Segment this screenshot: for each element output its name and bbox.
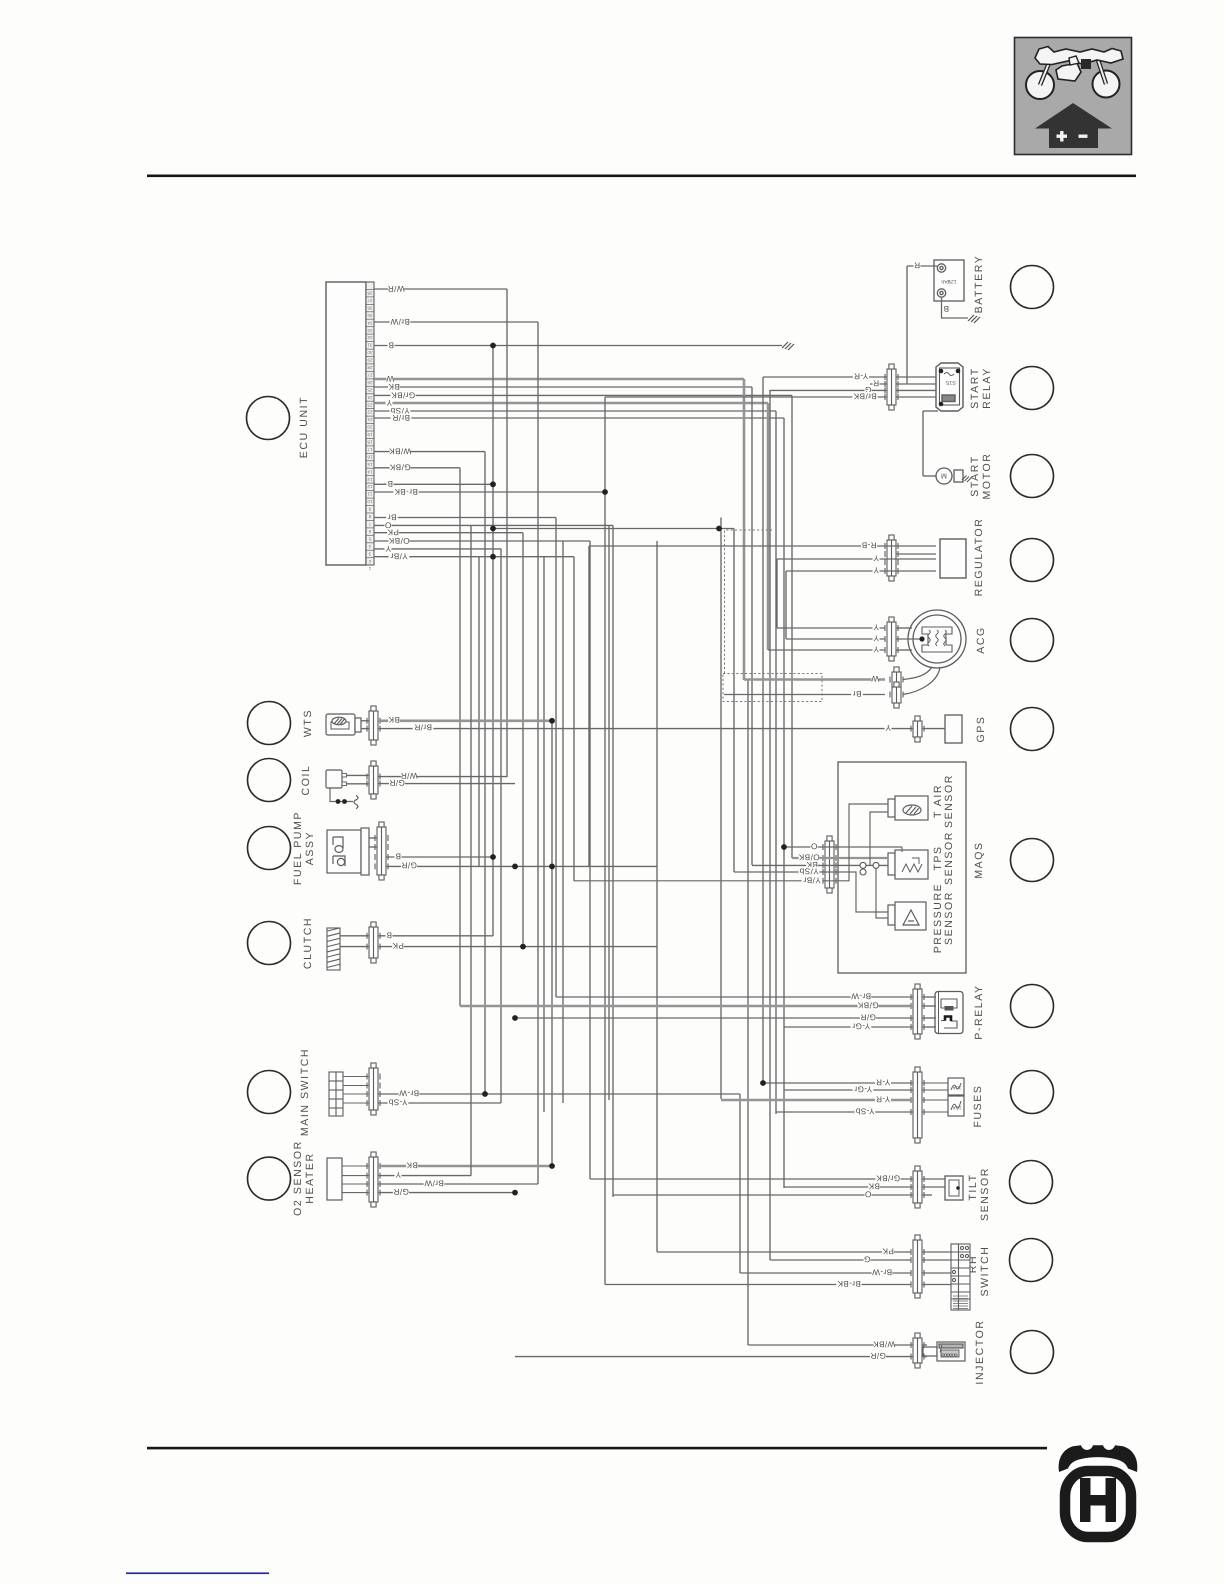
connector RH SWITCH [911, 1235, 924, 1298]
label Y [873, 553, 880, 562]
svg-text:Y-R: Y-R [876, 1077, 891, 1086]
svg-text:Y-Gr: Y-Gr [854, 1084, 872, 1093]
wire ECU pin O/BK [374, 540, 590, 542]
wire relay to battery junction [896, 376, 936, 378]
svg-text:Y-Gr: Y-Gr [852, 1021, 870, 1030]
wire ECU pin Br/R [374, 417, 784, 419]
svg-text:22: 22 [367, 410, 373, 415]
label START [969, 455, 981, 496]
label ACG [975, 626, 987, 654]
svg-text:W/BK: W/BK [389, 446, 412, 455]
label O [865, 1189, 872, 1198]
svg-text:21: 21 [367, 417, 373, 422]
svg-text:Y: Y [873, 633, 879, 642]
label GPS [975, 716, 987, 743]
label W/R [387, 284, 404, 293]
label Y/Sb [390, 406, 411, 415]
label BATTERY [973, 255, 985, 314]
wire RH PK [657, 1251, 911, 1253]
svg-text:W: W [871, 674, 879, 683]
label G/R [870, 1351, 886, 1360]
junction Y-R link [716, 526, 722, 532]
callout circle ECU [247, 397, 290, 440]
connector ACG Br [890, 682, 903, 708]
connector REGULATOR [885, 535, 898, 581]
svg-text:25: 25 [367, 387, 373, 392]
footer blue underline [126, 1572, 269, 1574]
label RELAY [981, 367, 993, 409]
svg-text:O/BK: O/BK [388, 536, 409, 545]
connector TILT [911, 1166, 924, 1208]
label PRESSURE SENSOR 2 [943, 891, 955, 945]
wire O2 Y [378, 1175, 471, 1177]
label W [386, 374, 394, 383]
injector symbol [923, 1342, 965, 1361]
wire p-relay Br-W [556, 996, 913, 998]
wire WTS pins [361, 720, 369, 722]
svg-text:Y/Sb: Y/Sb [799, 866, 818, 875]
label Br [851, 689, 863, 698]
label G [865, 385, 872, 394]
label T AIR [932, 784, 944, 818]
label Y-Gr [851, 1021, 872, 1030]
connector O2 HEATER [367, 1152, 380, 1207]
wire Y GPS tap (vertical run) [500, 549, 502, 1103]
wire regulator Y2 [786, 570, 936, 572]
svg-text:PK: PK [882, 1246, 894, 1255]
svg-text:Br/W: Br/W [390, 317, 410, 326]
svg-text:Y-R: Y-R [854, 371, 869, 380]
main switch symbol [329, 1072, 343, 1116]
junction B a [490, 343, 496, 349]
callout circle O2 SENSOR HEATER [248, 1157, 291, 1200]
label MOTOR [981, 453, 993, 500]
wire p-relay G/R [515, 1017, 913, 1019]
wire Br-BK bus (vertical run) [604, 397, 606, 1285]
svg-text:MAIN SWITCH: MAIN SWITCH [299, 1048, 311, 1136]
svg-text:SWITCH: SWITCH [979, 1245, 991, 1296]
label RH SWITCH 2 [979, 1245, 991, 1296]
GPS box [945, 715, 962, 743]
svg-text:16: 16 [367, 455, 373, 460]
svg-text:9: 9 [368, 507, 371, 512]
svg-text:Y: Y [873, 622, 879, 631]
ECU unit box [326, 282, 366, 565]
junction G/R b [512, 1015, 518, 1021]
wire Y-R link [493, 528, 734, 530]
label fuse 2 [952, 1104, 962, 1110]
label RH [967, 1255, 979, 1273]
svg-text:9Ah: 9Ah [941, 278, 950, 284]
label fuse 1 [952, 1084, 962, 1090]
wire ECU pin Br-BK [374, 491, 605, 493]
label Br-W [399, 1088, 420, 1097]
svg-text:CLUTCH: CLUTCH [302, 917, 314, 969]
svg-text:Br-W: Br-W [872, 1267, 892, 1276]
wire MAQS Y/Br [574, 804, 888, 881]
wire regulator pin stub [896, 553, 936, 555]
connector START RELAY [885, 364, 898, 410]
ground coil squiggle [354, 796, 358, 809]
wire battery B to ground [942, 297, 969, 318]
label Y/Sb [799, 866, 820, 875]
label Br [386, 512, 398, 521]
wire bus filler c (vertical run) [543, 557, 545, 1112]
wire ACG pins to rotor [896, 627, 912, 629]
svg-text:R: R [873, 378, 879, 387]
wire Y-R relay-fuse bus (vertical run) [762, 377, 764, 1083]
svg-text:2: 2 [368, 559, 371, 564]
svg-text:G/R: G/R [393, 1187, 409, 1196]
label PK [387, 528, 399, 537]
wire fuse Y-R [763, 1082, 913, 1084]
svg-text:G/R: G/R [870, 1351, 886, 1360]
label BK [388, 715, 400, 724]
svg-text:35: 35 [367, 313, 373, 318]
svg-text:30A: 30A [952, 1084, 962, 1090]
svg-text:Y: Y [386, 398, 392, 407]
svg-text:15A: 15A [952, 1104, 962, 1110]
wire injector stubs [922, 1344, 927, 1346]
clutch switch symbol [327, 928, 340, 970]
label Br-BK [836, 1279, 861, 1288]
callout circle RH SWITCH [1010, 1239, 1053, 1282]
node MAQS splice a [860, 862, 866, 868]
svg-text:W/R: W/R [387, 284, 404, 293]
wire ECU pin Gr/BK [374, 394, 792, 396]
label Br-W [872, 1267, 893, 1276]
label TPS [932, 845, 944, 870]
wire RH Br-W [740, 1272, 911, 1274]
label MAQS [973, 841, 985, 878]
label HEATER [304, 1152, 316, 1203]
wire W ACG feed (vertical run) [743, 379, 746, 680]
svg-text:6: 6 [368, 529, 371, 534]
svg-text:29: 29 [367, 358, 373, 363]
callout circle MAIN SWITCH [248, 1071, 291, 1114]
label R [873, 378, 880, 387]
wire injector G/R [515, 1356, 913, 1358]
label G [864, 1254, 871, 1263]
O2 sensor heater symbol [327, 1158, 342, 1200]
callout circle START RELAY [1011, 367, 1054, 410]
wire tilt BK [784, 1186, 913, 1188]
svg-text:Y-Sb: Y-Sb [388, 1097, 407, 1106]
connector MAIN SWITCH [367, 1063, 380, 1115]
label G/R [389, 778, 405, 787]
label T AIR SENSOR 2 [943, 774, 955, 828]
svg-text:B: B [388, 340, 394, 349]
svg-text:19: 19 [367, 432, 373, 437]
callout circle START MOTOR [1011, 455, 1054, 498]
junction coil gnd a [336, 799, 341, 804]
junction relay pin c [939, 402, 944, 407]
svg-text:Br/R: Br/R [414, 723, 432, 732]
svg-text:RELAY: RELAY [981, 367, 993, 409]
junction O a [490, 526, 496, 532]
junction coil gnd b [342, 799, 347, 804]
wire tilt Gr/BK [590, 1178, 913, 1180]
svg-text:36: 36 [367, 306, 373, 311]
wire MAQS O/BK [792, 857, 888, 859]
junction Y-Br a [490, 554, 496, 560]
label MAIN SWITCH [299, 1048, 311, 1136]
ground battery [968, 315, 980, 323]
label G/BK [389, 463, 410, 472]
wire ECU pin Y/Sb [374, 410, 776, 412]
svg-text:12: 12 [367, 484, 373, 489]
label BK [868, 1181, 880, 1190]
connector CLUTCH [367, 922, 380, 963]
wire W/BK main switch feed (vertical run) [484, 452, 486, 1094]
svg-text:SENSOR: SENSOR [943, 774, 955, 828]
label B [388, 340, 395, 349]
wire relay to start motor stub [923, 410, 938, 412]
P-relay box [935, 992, 963, 1034]
label Y [873, 633, 880, 642]
wire Y/Br MAQS feed (vertical run) [573, 557, 575, 881]
wire ECU pin PK [374, 532, 523, 534]
T air sensor symbol [888, 796, 928, 820]
ground ECU B wire [782, 342, 794, 350]
label Br/W [424, 1178, 445, 1187]
svg-text:BATTERY: BATTERY [973, 255, 985, 314]
wire R-B regulator run (vertical run) [588, 546, 590, 866]
wire O tilt feed (vertical run) [612, 525, 614, 1197]
junction G/R a [512, 864, 518, 870]
connector FUSES [911, 1067, 924, 1143]
svg-text:Y: Y [873, 553, 879, 562]
wire O2 BK [378, 1165, 552, 1168]
ECU pin numbers [367, 291, 373, 572]
connector COIL [367, 761, 380, 799]
connector WTS [367, 706, 380, 745]
wire fuse Y-R 2 [721, 1099, 913, 1102]
wire WTS Br/R - GPS Y long run [378, 728, 914, 730]
wire clutch B [378, 935, 493, 937]
wire ACG Y3 [768, 649, 885, 651]
wire start motor drop (vertical run) [922, 411, 924, 476]
label PRESSURE [932, 883, 944, 954]
wire p-relay stubs [922, 996, 936, 998]
callout circle WTS [248, 702, 291, 745]
wire Br/R MAQS-fuse bus (vertical run) [783, 418, 785, 1188]
svg-text:START: START [969, 367, 981, 408]
wire PK bus upper (vertical run) [522, 533, 524, 947]
ECU connector pin strip [366, 282, 374, 565]
junction relay pin a [939, 369, 944, 374]
fuse 1 symbol [922, 1078, 964, 1095]
svg-text:30: 30 [367, 350, 373, 355]
svg-text:BK: BK [388, 715, 400, 724]
label Gr/BK [390, 390, 415, 399]
pressure sensor symbol [888, 902, 926, 930]
label Y [873, 565, 880, 574]
wire start relay R [896, 383, 936, 385]
battery symbol [934, 260, 964, 301]
wire PK bus lower (vertical run) [656, 541, 658, 1252]
wire ECU pin Y [374, 548, 501, 550]
label BK [406, 1160, 418, 1169]
wire W/BK injector run (vertical run) [747, 680, 749, 1345]
fuse 2 symbol [922, 1096, 964, 1116]
svg-text:B: B [395, 851, 401, 860]
label START [969, 367, 981, 408]
wire coil G/R [378, 783, 515, 785]
label Br-W [851, 991, 872, 1000]
wire ECU pin Br [374, 517, 556, 519]
svg-text:W/BK: W/BK [873, 1339, 896, 1348]
wire RH stubs [922, 1251, 951, 1253]
label BK [806, 860, 818, 869]
junction Br-BK [602, 489, 608, 495]
label Y/Br [802, 875, 823, 884]
wire regulator Y2 loop (vertical run) [785, 571, 787, 639]
label INJECTOR [974, 1319, 986, 1384]
label G/R [401, 861, 417, 870]
wire O2 Y vertical [470, 525, 472, 1175]
label FUEL PUMP [292, 811, 304, 885]
svg-text:Br-W: Br-W [851, 991, 871, 1000]
label Y [873, 622, 880, 631]
junction Br-W ms [482, 1091, 488, 1097]
svg-text:Br-W: Br-W [399, 1088, 419, 1097]
label TILT SENSOR 2 [979, 1167, 991, 1221]
svg-text:27: 27 [367, 373, 373, 378]
label Y-R [853, 371, 869, 380]
label CLUTCH [302, 917, 314, 969]
junction Y-R fuse [760, 1080, 766, 1086]
RH switch box [951, 1244, 970, 1310]
svg-text:O: O [811, 841, 818, 850]
svg-text:B: B [387, 479, 393, 488]
ignition coil symbol [326, 770, 347, 788]
label O/BK [798, 852, 819, 861]
svg-text:3: 3 [368, 551, 371, 556]
svg-text:INJECTOR: INJECTOR [974, 1319, 986, 1384]
svg-text:B: B [386, 930, 392, 939]
svg-text:11: 11 [367, 492, 372, 497]
label Br/R [391, 413, 412, 422]
connector MAQS [823, 836, 836, 893]
wire ACG pigtail W [903, 667, 932, 680]
label B [395, 851, 402, 860]
svg-text:G/R: G/R [401, 861, 417, 870]
fuel pump assy symbol [327, 828, 369, 875]
shield dashed box [723, 530, 822, 702]
callout circle FUSES [1011, 1071, 1054, 1114]
svg-text:PK: PK [387, 528, 399, 537]
svg-text:BK: BK [388, 382, 400, 391]
label Y-R [875, 1077, 891, 1086]
label O [811, 841, 818, 850]
junction ACG node [919, 636, 924, 641]
wire regulator R-B [589, 545, 936, 547]
svg-text:Gr/BK: Gr/BK [391, 390, 415, 399]
Husqvarna logo [1059, 1445, 1138, 1537]
label Y-Sb [388, 1097, 409, 1106]
callout circle REGULATOR [1011, 539, 1054, 582]
svg-text:ECU UNIT: ECU UNIT [298, 396, 310, 458]
footer rule [147, 1447, 1047, 1450]
svg-text:MOTOR: MOTOR [981, 453, 993, 500]
wire main switch pins [343, 1077, 369, 1104]
wire O2 G/R [378, 1192, 515, 1194]
svg-text:O2 SENSOR: O2 SENSOR [292, 1140, 304, 1216]
junction BK wts [549, 718, 555, 724]
svg-text:Br: Br [853, 689, 862, 698]
svg-text:G/R: G/R [389, 778, 405, 787]
svg-text:Br-BK: Br-BK [837, 1279, 861, 1288]
wire ECU pin Y [374, 402, 768, 405]
svg-text:REGULATOR: REGULATOR [973, 518, 985, 597]
label PK [392, 941, 404, 950]
svg-text:ACG: ACG [975, 626, 987, 654]
icon battery-removal pictogram box [1015, 38, 1132, 155]
wire W/R coil feed (vertical run) [506, 289, 508, 777]
wire O2 Br/W [378, 1183, 538, 1185]
connector ACG [885, 617, 898, 661]
label Br/W [390, 317, 411, 326]
wire ACG Y2 [786, 638, 885, 640]
svg-text:P-RELAY: P-RELAY [973, 984, 985, 1039]
label W/R [400, 771, 417, 780]
WTS sensor symbol [326, 714, 361, 735]
label ECU UNIT [298, 396, 310, 458]
wire main switch Y-Sb [378, 1102, 501, 1104]
wire clutch pins [340, 935, 369, 937]
wire clutch PK [378, 946, 657, 948]
wire RH G [770, 1259, 911, 1261]
svg-text:24: 24 [367, 395, 373, 400]
label B [386, 930, 393, 939]
label Y [873, 644, 880, 653]
label W [871, 674, 879, 683]
wire fuse Y-Sb [776, 1111, 913, 1113]
wire Gr/BK tilt feed (vertical run) [589, 541, 591, 1179]
junction G/R c [512, 1190, 518, 1196]
callout circle BATTERY [1011, 266, 1054, 309]
junction tilt indicator [956, 1186, 960, 1190]
wire fuel pump G/R [386, 865, 657, 867]
label B [943, 304, 950, 313]
callout circle ACG [1011, 619, 1054, 662]
label Y [395, 1170, 402, 1179]
svg-text:HEATER: HEATER [304, 1152, 316, 1203]
callout circle MAQS [1011, 839, 1054, 882]
svg-text:10: 10 [367, 499, 373, 504]
wire Y/Sb fuse feed (vertical run) [775, 411, 777, 1114]
wire start motor feed [923, 475, 936, 477]
callout circle CLUTCH [248, 922, 291, 965]
label W/BK [389, 446, 412, 455]
label Y [385, 544, 392, 553]
label Y [885, 723, 892, 732]
start motor symbol [936, 468, 963, 484]
svg-text:31: 31 [367, 343, 373, 348]
wire bus filler a (vertical run) [478, 557, 480, 867]
callout circle P-RELAY [1011, 985, 1054, 1028]
wire ECU pin B [374, 345, 782, 347]
node MAQS splice b [873, 862, 879, 868]
svg-text:15: 15 [367, 462, 373, 467]
wire ACG W [744, 678, 885, 681]
label P-RELAY [973, 984, 985, 1039]
wire ECU pin W/R [374, 288, 507, 290]
wire fuel pump pins [369, 837, 378, 839]
node MAQS splice c [860, 869, 866, 875]
junction Br/R maqs [781, 844, 787, 850]
